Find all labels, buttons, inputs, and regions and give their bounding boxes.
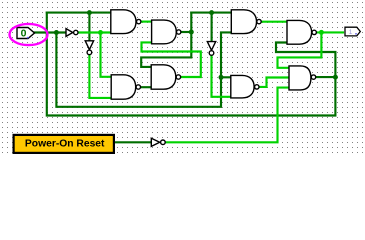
svg-text:Power-On Reset: Power-On Reset [25,139,105,150]
svg-text:0: 0 [21,27,27,39]
svg-text:1: 1 [349,29,353,36]
